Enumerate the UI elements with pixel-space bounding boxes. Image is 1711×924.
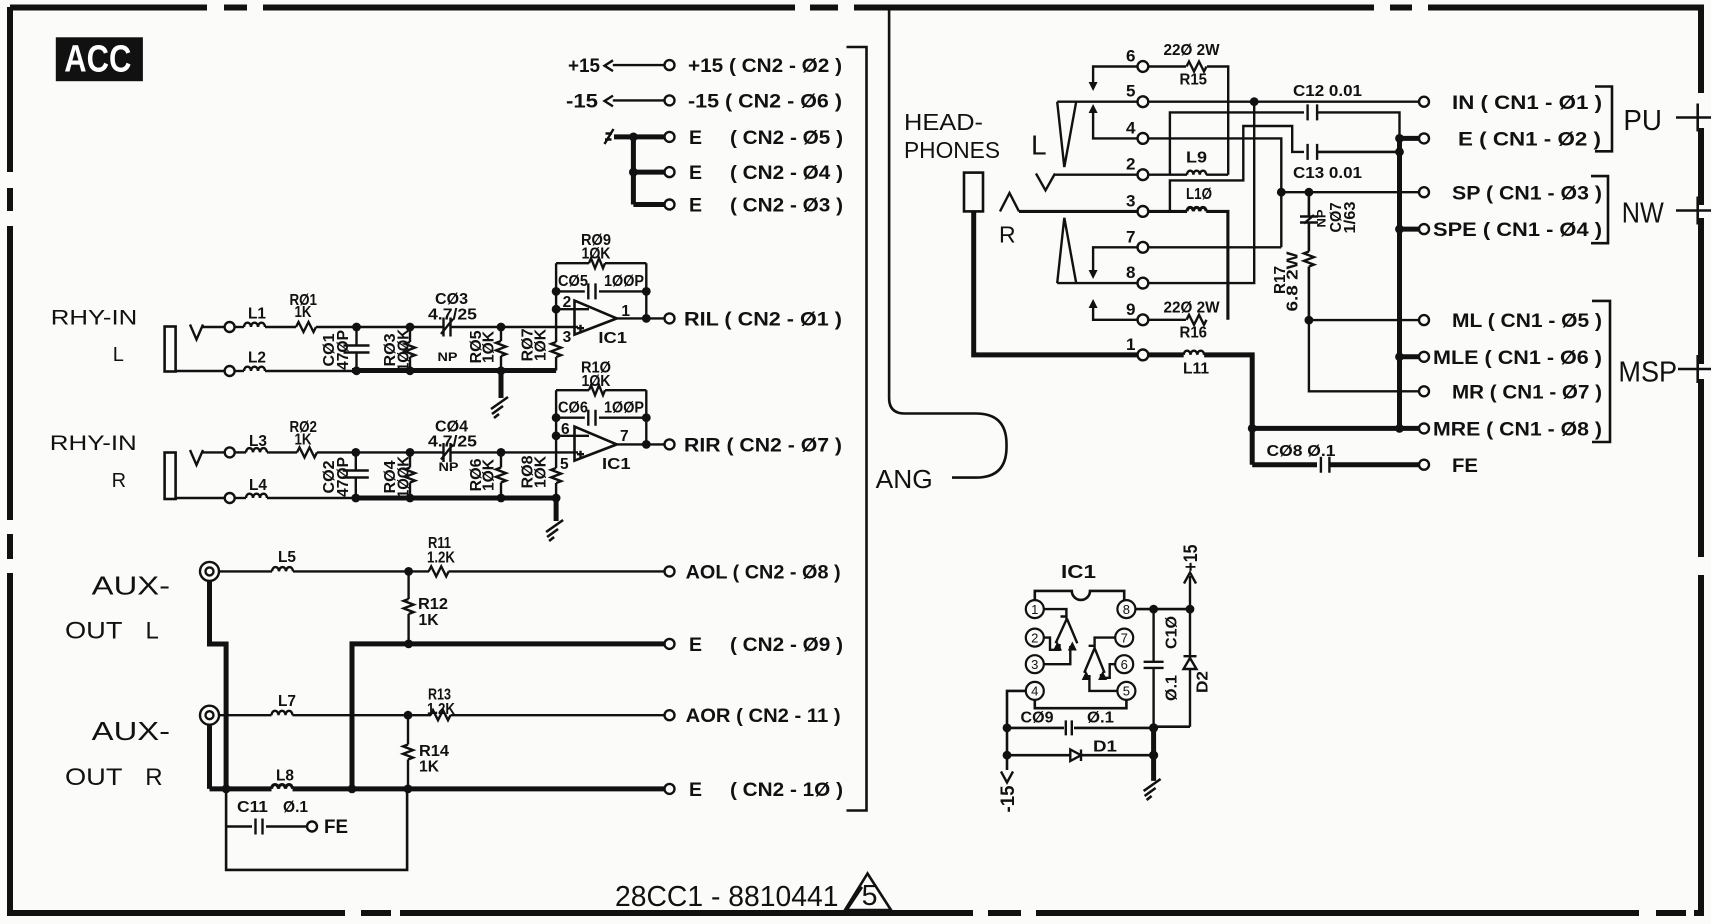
wire MRE row: [1252, 426, 1418, 431]
wire contact 4 to SP bus: [1148, 138, 1281, 247]
diode D1: [1070, 750, 1081, 762]
junction C13 at E bus: [1395, 148, 1404, 157]
wire contact 9 to R16: [1148, 319, 1186, 321]
svg-text:MR ( CN1 - Ø7 ): MR ( CN1 - Ø7 ): [1452, 381, 1602, 403]
wire C07 to R17: [1308, 223, 1311, 252]
revision triangle 5: [845, 874, 891, 912]
svg-text:L1: L1: [248, 306, 266, 323]
terminal SPE (CN1-04): [1419, 224, 1429, 234]
switch arrow 9-8: [1089, 299, 1098, 308]
junction node F top: [497, 448, 506, 457]
resistor R04 100K: [405, 468, 415, 483]
svg-text:+15: +15: [1180, 544, 1202, 571]
+15 off-page arrow: [1184, 573, 1196, 610]
op-amp B input arrow 2: [1098, 671, 1107, 680]
terminal -15 (CN2-06): [665, 95, 675, 105]
switch contact 8: [1138, 278, 1149, 289]
svg-text:IC1: IC1: [1061, 561, 1096, 582]
wire MLE stub: [1400, 354, 1419, 359]
terminal +15 (CN2-02): [665, 60, 675, 70]
wire NW off-page: [1676, 209, 1711, 212]
capacitor C08 0.1: [1321, 457, 1330, 473]
junction MRE / L11 rail: [1248, 424, 1257, 433]
junction R14 top: [404, 711, 413, 720]
svg-text:NW: NW: [1622, 198, 1664, 230]
terminal E (CN2-09): [665, 639, 675, 649]
svg-text:3: 3: [1031, 657, 1038, 672]
terminal RIL (CN2-01): [665, 313, 675, 323]
junction node B bottom: [406, 366, 415, 375]
wire feedback right vertical (R): [645, 390, 647, 444]
svg-text:C13 0.01: C13 0.01: [1293, 165, 1362, 182]
svg-text:22Ø 2W: 22Ø 2W: [1164, 300, 1220, 317]
svg-text:-15 ( CN2 - Ø6 ): -15 ( CN2 - Ø6 ): [688, 91, 842, 113]
jack R slider contact: [1057, 218, 1076, 283]
wire L3 to R02: [267, 451, 297, 453]
svg-text:C1Ø: C1Ø: [1164, 616, 1181, 649]
wire jack tip to terminal: [202, 326, 225, 328]
svg-text:AOR ( CN2 - 11 ): AOR ( CN2 - 11 ): [686, 705, 841, 727]
junction C06 left: [552, 413, 561, 422]
svg-text:R14: R14: [419, 743, 449, 760]
op-amp B input elbow pin 6: [1101, 664, 1115, 678]
op-amp plus input marker: [577, 325, 584, 332]
terminal jack R sleeve: [225, 493, 235, 503]
wire L10 right to R16 right: [1206, 211, 1228, 319]
bracket PU group: [1595, 87, 1612, 152]
wire MSP off-page: [1678, 368, 1711, 371]
resistor R06 10K: [496, 468, 506, 483]
junction node C top: [497, 323, 506, 332]
wire L2 left: [235, 370, 244, 372]
wire ground stub L: [499, 371, 504, 399]
wire pin 8 to +15 rail: [1135, 608, 1190, 611]
svg-text:( CN2 - Ø5 ): ( CN2 - Ø5 ): [730, 127, 843, 149]
junction C09 left: [1003, 724, 1012, 733]
terminal MLE (CN1-06): [1419, 352, 1429, 362]
wire C03 to pin3 (top rail L): [451, 326, 579, 328]
terminal E (CN2-04): [665, 167, 675, 177]
terminal MRE (CN1-08): [1419, 423, 1429, 433]
svg-text:L11: L11: [1183, 361, 1209, 378]
headphone jack body: [964, 173, 983, 212]
wire C11 left: [226, 825, 252, 828]
wire contact 1 to L11: [1148, 352, 1183, 357]
svg-text:7: 7: [620, 428, 629, 445]
junction AUX L ground: [222, 785, 231, 794]
svg-text:L: L: [113, 344, 124, 366]
junction IN / row 8 branch: [1250, 97, 1259, 106]
terminal MR (CN1-07): [1419, 386, 1429, 396]
junction node A bottom: [352, 366, 361, 375]
svg-text:AUX-: AUX-: [92, 718, 170, 746]
wire L3 left: [235, 451, 246, 453]
svg-text:1ØØK: 1ØØK: [396, 455, 413, 498]
switch contact 6: [1138, 61, 1149, 72]
junction E (CN1-02): [1395, 134, 1404, 143]
resistor R07 10K: [551, 342, 561, 357]
svg-text:L2: L2: [248, 350, 266, 367]
wire op-amp output (R): [617, 443, 665, 445]
capacitor C13 0.01: [1308, 144, 1318, 160]
inductor L5: [272, 567, 293, 571]
svg-text:1K: 1K: [295, 304, 313, 321]
wire C13 tap staircase: [1170, 126, 1304, 211]
svg-text:IN ( CN1 - Ø1 ): IN ( CN1 - Ø1 ): [1452, 92, 1602, 114]
junction C10 top: [1149, 605, 1158, 614]
wire R09 rail: [556, 262, 646, 264]
switch arrow 6-5: [1089, 82, 1098, 91]
ground (RHY R): [546, 520, 563, 541]
wire SP row: [1281, 191, 1418, 193]
op-amp symbol B (pins 7-6-5): [1084, 638, 1115, 673]
svg-text:R: R: [145, 764, 162, 791]
capacitor C04 4.7/25 NP: [441, 443, 453, 462]
wire R15 to L9 right: [1207, 67, 1228, 175]
inductor L2: [244, 367, 265, 371]
wire FE branch loop: [226, 789, 407, 870]
svg-text:28CC1 - 8810441: 28CC1 - 8810441: [615, 881, 839, 913]
svg-text:3: 3: [1126, 191, 1135, 210]
wire feedback right vertical (L): [645, 263, 647, 318]
junction node D top: [351, 448, 360, 457]
svg-text:6: 6: [561, 421, 570, 438]
svg-text:5: 5: [862, 880, 878, 912]
capacitor C07 1/63 NP: [1300, 215, 1318, 224]
svg-text:E: E: [689, 634, 702, 656]
junction node E bottom: [406, 494, 415, 503]
capacitor C09 0.1: [1066, 720, 1072, 735]
switch contact 5: [1138, 96, 1149, 107]
svg-text:47ØP: 47ØP: [335, 457, 352, 497]
svg-text:R16: R16: [1180, 325, 1208, 342]
wire jack sleeve to terminal (L): [176, 370, 225, 372]
pin 7 circle: [1115, 629, 1133, 647]
wire contact 6 left: [1093, 67, 1137, 83]
pin 4 circle: [1026, 682, 1044, 700]
chassis tick symbol at E (CN2-05): [605, 129, 614, 144]
wire contact 8 to row 5: [1148, 102, 1254, 283]
resistor R02: [297, 447, 317, 457]
wire R01 to C03 (top rail L): [316, 326, 444, 328]
svg-text:4.7/25: 4.7/25: [428, 307, 477, 324]
terminal E (CN2-10): [665, 784, 675, 794]
wire ML row: [1309, 319, 1419, 321]
terminal E (CN2-03): [665, 200, 675, 210]
op-amp B input elbow pin 5: [1089, 675, 1117, 691]
wire C12 to E bus: [1317, 112, 1399, 138]
resistor R17 6.8 2W: [1304, 252, 1314, 267]
svg-text:FE: FE: [1452, 455, 1478, 477]
terminal ML (CN1-05): [1419, 315, 1429, 325]
svg-text:CØ6: CØ6: [558, 400, 588, 417]
junction C09 right / ground rail: [1149, 723, 1158, 732]
-15 off-page arrow: [1001, 772, 1013, 783]
svg-text:L: L: [146, 618, 159, 645]
svg-text:RIL ( CN2 - Ø1 ): RIL ( CN2 - Ø1 ): [684, 308, 842, 330]
svg-text:AUX-: AUX-: [92, 573, 170, 601]
wire L11 to MRE rail: [1204, 355, 1252, 465]
svg-text:NP: NP: [1317, 209, 1329, 227]
inductor L3: [246, 448, 267, 452]
terminal E (CN1-02): [1419, 133, 1429, 143]
resistor R15 220 2W: [1187, 62, 1207, 72]
svg-text:E ( CN1 - Ø2 ): E ( CN1 - Ø2 ): [1458, 129, 1601, 151]
svg-text:AOL ( CN2 - Ø8 ): AOL ( CN2 - Ø8 ): [686, 561, 841, 583]
op-amp IC1 (A): [575, 301, 617, 335]
wire contact 2 left to tip: [1055, 173, 1138, 175]
junction C06 right: [642, 413, 651, 422]
op-amp IC1 (B): [575, 427, 617, 461]
wire PU off-page: [1676, 116, 1711, 119]
svg-text:R15: R15: [1180, 72, 1208, 89]
junction output feedback (L): [642, 314, 651, 323]
junction E rail bottom: [348, 785, 357, 794]
phone jack J1 RHY-IN L: [165, 327, 176, 372]
junction node E top: [406, 448, 415, 457]
wire R11 to AOL: [449, 570, 665, 572]
capacitor C10 0.1: [1144, 609, 1164, 728]
svg-text:5: 5: [1123, 684, 1130, 699]
terminal AOL (CN2-08): [665, 566, 675, 576]
wire C08 to FE: [1329, 462, 1418, 467]
terminal AOR (CN2-11): [665, 710, 675, 720]
svg-text:6.8 2W: 6.8 2W: [1285, 251, 1302, 311]
svg-text:C12 0.01: C12 0.01: [1293, 83, 1362, 100]
svg-text:8: 8: [1123, 602, 1130, 617]
pin 5 circle: [1117, 682, 1135, 700]
page dashed border: left: [7, 7, 13, 172]
svg-text:5: 5: [560, 456, 569, 473]
switch contact 1: [1138, 350, 1149, 361]
wire contact 9 left: [1093, 308, 1137, 320]
svg-text:( CN2 - 1Ø ): ( CN2 - 1Ø ): [730, 779, 843, 801]
pin 1 circle: [1026, 600, 1044, 618]
wire E stub: [1400, 136, 1419, 141]
pin 6 circle: [1115, 655, 1133, 673]
junction E tree mid: [629, 168, 638, 177]
svg-text:L7: L7: [278, 693, 296, 710]
svg-text:( CN2 - Ø3 ): ( CN2 - Ø3 ): [730, 195, 843, 217]
junction R14 bottom: [404, 785, 413, 794]
phone jack J2 RHY-IN R: [165, 453, 176, 500]
jack L slider contact: [1057, 102, 1076, 167]
wire C05 rail: [556, 290, 646, 292]
junction node A top: [352, 323, 361, 332]
capacitor C12 0.01: [1308, 104, 1318, 120]
capacitor C01 470P: [344, 327, 370, 371]
svg-text:D1: D1: [1093, 739, 1117, 756]
svg-text:Ø.1: Ø.1: [1164, 675, 1181, 701]
wire R17 to ML row: [1308, 267, 1311, 321]
svg-text:CØ5: CØ5: [558, 273, 588, 290]
jack tip contact V (L): [190, 325, 203, 340]
terminal jack L tip: [225, 322, 235, 332]
wire L4 left: [235, 497, 246, 499]
op-amp symbol A (pins 1-2-3): [1044, 609, 1077, 643]
junction E tree top: [629, 133, 638, 142]
svg-text:7: 7: [1121, 630, 1128, 645]
svg-text:R: R: [999, 222, 1016, 248]
svg-text:E: E: [689, 162, 702, 184]
svg-text:E: E: [689, 195, 702, 217]
IC1 package outline: [1035, 591, 1127, 708]
svg-text:+15: +15: [568, 55, 600, 77]
wire R02 to C04 (top rail R): [317, 451, 444, 453]
svg-text:ANG: ANG: [876, 464, 933, 494]
svg-text:OUT: OUT: [65, 764, 123, 791]
svg-text:9: 9: [1126, 300, 1135, 319]
wire contact 7 right: [1148, 246, 1281, 248]
PU border tick: [1696, 104, 1699, 132]
svg-text:4: 4: [1031, 684, 1038, 699]
svg-text:Ø.1: Ø.1: [283, 799, 308, 816]
op-amp A input elbow pin 2: [1044, 638, 1060, 650]
inductor L9: [1187, 171, 1206, 175]
wire FE row: [1252, 462, 1317, 467]
svg-text:CØ9: CØ9: [1021, 710, 1054, 727]
switch contact 7: [1138, 242, 1149, 253]
wire L1 to R01: [265, 326, 296, 328]
ACC title block: [56, 37, 143, 81]
wire bottom rail L (ground side): [352, 368, 556, 373]
wire MR row: [1309, 320, 1419, 391]
svg-text:-15: -15: [997, 785, 1019, 812]
svg-text:C11: C11: [237, 799, 268, 816]
resistor R01: [296, 322, 316, 332]
svg-text:1: 1: [1031, 602, 1038, 617]
jack L tip contact V: [1036, 174, 1055, 191]
junction C05 right: [642, 287, 651, 296]
bracket NW group: [1591, 176, 1608, 243]
wire C12 tap staircase: [1170, 112, 1304, 174]
inductor L1: [244, 323, 265, 327]
svg-text:Ø.1: Ø.1: [1087, 710, 1114, 727]
wire AUX R to L7: [219, 714, 272, 716]
capacitor C03 4.7/25 NP: [441, 318, 453, 337]
capacitor C05 100P (feedback): [588, 283, 595, 299]
svg-text:L8: L8: [276, 768, 294, 785]
svg-text:1/63: 1/63: [1342, 201, 1359, 233]
wire R13 to AOR: [451, 714, 665, 716]
wire inverting node vertical (L): [555, 263, 557, 370]
wire contact 6 to R15: [1148, 65, 1186, 67]
svg-text:IC1: IC1: [602, 456, 631, 473]
svg-text:1ØK: 1ØK: [582, 246, 612, 263]
wire E rail (CN2-09): [352, 644, 665, 789]
op-amp A input arrow 1: [1053, 642, 1062, 651]
RCA jack AUX OUT L: [200, 562, 219, 581]
wire inverting node vertical (R): [555, 390, 557, 498]
inductor L7: [272, 711, 293, 715]
wire R10 rail: [556, 389, 646, 391]
wire to ANG board: [889, 10, 1006, 478]
wire -15 to CN2-06: [613, 99, 665, 101]
op-amp A input elbow pin 3: [1044, 646, 1070, 664]
wire L5 to R11: [293, 570, 429, 572]
wire op-amp output (L): [617, 317, 665, 319]
junction pin2 node: [552, 305, 561, 314]
wire pin 2 input (L): [556, 308, 589, 310]
svg-text:4: 4: [1126, 118, 1136, 137]
terminal jack R tip: [225, 447, 235, 457]
svg-text:SP ( CN1 - Ø3 ): SP ( CN1 - Ø3 ): [1452, 183, 1602, 205]
junction MRE at bus: [1395, 424, 1404, 433]
wire pin 6 input: [556, 435, 589, 437]
wire L1 left: [235, 326, 244, 328]
svg-text:RHY-IN: RHY-IN: [51, 306, 138, 330]
wire ground rail IC1: [1151, 728, 1156, 781]
svg-text:IC1: IC1: [598, 330, 627, 347]
wire jack tip to terminal (R): [202, 451, 225, 453]
junction D2 top: [1186, 605, 1195, 614]
wire contact 3 left to tip: [1019, 210, 1138, 213]
svg-text:ML ( CN1 - Ø5 ): ML ( CN1 - Ø5 ): [1452, 310, 1602, 332]
junction SPE at bus: [1395, 225, 1404, 234]
inductor L10: [1187, 207, 1206, 211]
resistor R08 10K: [551, 468, 561, 483]
wire bottom rail (CN2-10): [293, 786, 665, 791]
capacitor C02 470P: [343, 452, 369, 498]
svg-text:1ØK: 1ØK: [481, 330, 498, 363]
svg-text:ACC: ACC: [64, 39, 131, 81]
resistor R13 1.2K: [431, 710, 451, 720]
svg-text:PHONES: PHONES: [904, 137, 1000, 163]
pin 8 circle: [1117, 600, 1135, 618]
svg-text:1ØK: 1ØK: [481, 458, 498, 491]
wire contact 5 to IN: [1148, 100, 1418, 102]
wire bottom rail R (ground side): [352, 496, 556, 501]
svg-text:2: 2: [1126, 155, 1135, 174]
junction ML / R17: [1305, 316, 1314, 325]
resistor R16 220 2W: [1187, 315, 1207, 325]
junction R12 bottom: [404, 640, 413, 649]
svg-text:L1Ø: L1Ø: [1186, 186, 1212, 203]
ground (IC1): [1144, 779, 1161, 800]
junction ground node R: [552, 494, 561, 503]
wire L2 to node A bottom: [265, 370, 352, 372]
svg-text:L3: L3: [249, 433, 267, 450]
svg-text:L5: L5: [278, 549, 296, 566]
svg-text:L4: L4: [249, 477, 267, 494]
svg-text:FE: FE: [324, 816, 348, 838]
MSP border tick: [1696, 355, 1699, 383]
resistor R14 1K: [403, 745, 413, 760]
resistor R11 1.2K: [429, 566, 449, 576]
svg-text:2: 2: [1031, 630, 1038, 645]
terminal RIR (CN2-07): [665, 439, 675, 449]
junction D1 right: [1149, 751, 1158, 760]
svg-text:E: E: [689, 127, 702, 149]
diode D2: [1184, 609, 1197, 727]
svg-text:R12: R12: [418, 596, 448, 613]
wire AUX L to L5: [219, 570, 272, 572]
svg-text:6: 6: [1126, 47, 1135, 66]
op-amp A input arrow 2: [1068, 642, 1077, 651]
svg-text:8: 8: [1126, 263, 1135, 282]
bracket grouping CN2 side: [847, 47, 867, 811]
svg-text:PU: PU: [1623, 105, 1662, 137]
resistor R03 100K: [405, 342, 415, 357]
svg-text:1ØK: 1ØK: [582, 373, 612, 390]
wire C06 rail: [556, 417, 646, 419]
wire E to CN2-04: [633, 170, 664, 175]
svg-text:( CN2 - Ø9 ): ( CN2 - Ø9 ): [730, 634, 843, 656]
resistor R05 10K: [496, 341, 506, 356]
ground (RHY L): [491, 397, 508, 418]
switch arrow 4-5: [1089, 104, 1098, 113]
svg-text:R: R: [112, 470, 126, 492]
